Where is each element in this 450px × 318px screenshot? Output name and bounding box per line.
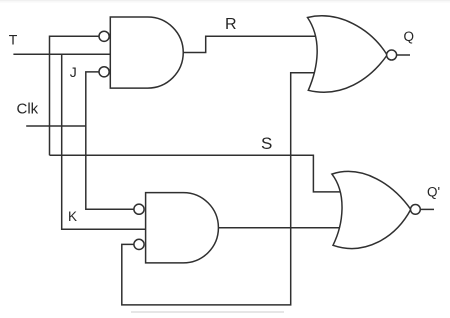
svg-text:Q: Q — [404, 29, 415, 44]
wire S line to lower NOR input — [50, 155, 342, 192]
G1 input bubble pin 2 — [99, 67, 109, 77]
top edge artifact — [0, 0, 450, 1]
svg-text:Clk: Clk — [17, 100, 39, 117]
wire Q' output — [420, 208, 434, 210]
wire R from top gate output to top NOR input — [183, 36, 316, 52]
wire T input — [13, 53, 112, 55]
wire feedback to top gate upper bubble — [50, 36, 105, 155]
svg-text:K: K — [68, 209, 77, 224]
wire Clk input — [26, 125, 86, 127]
wire J branch to top gate lower bubble — [86, 72, 104, 126]
G4 output bubble — [411, 205, 421, 215]
wire lower gate output to bottom NOR input — [219, 227, 342, 229]
svg-text:R: R — [225, 16, 237, 33]
NOR gate G3 (top right) — [308, 16, 388, 92]
G3 output bubble — [387, 50, 397, 60]
AND gate G2 (bottom, inverted inputs) — [146, 193, 219, 263]
G2 input bubble pin 1 — [134, 204, 144, 214]
svg-text:S: S — [261, 134, 272, 153]
wire T tap to lower gate middle input — [62, 54, 147, 229]
wire feedback loop from lower gate lower bubble to top NOR lower input — [122, 73, 316, 305]
G1 input bubble pin 1 — [99, 31, 109, 41]
wire Q output — [397, 54, 410, 56]
wire K branch to lower gate upper bubble — [86, 126, 139, 209]
svg-text:T: T — [9, 32, 18, 48]
bottom shadow artifact — [131, 311, 284, 313]
AND gate G1 (top, inverted inputs) — [110, 17, 183, 88]
NOR gate G4 (bottom right) — [332, 171, 411, 248]
G2 input bubble pin 2 — [134, 239, 144, 249]
svg-text:J: J — [70, 64, 77, 80]
svg-text:Q': Q' — [427, 184, 440, 199]
